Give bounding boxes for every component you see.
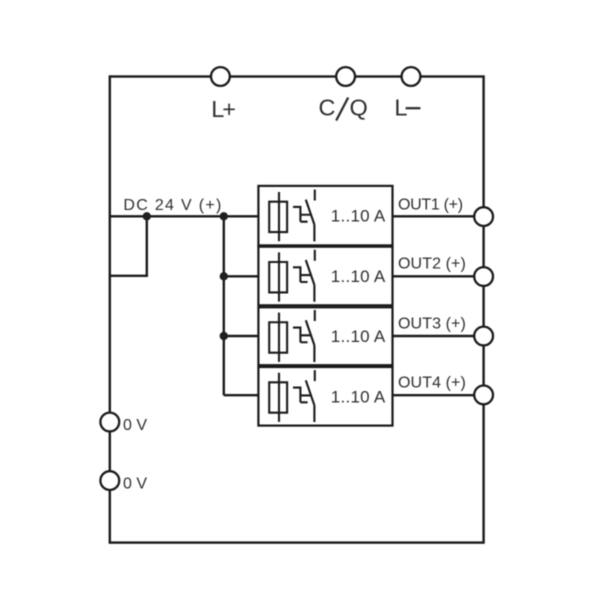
svg-text:+: + — [222, 96, 236, 122]
svg-text:1..10 A: 1..10 A — [331, 207, 386, 226]
svg-text:OUT4 (+): OUT4 (+) — [398, 375, 466, 392]
svg-text:1..10 A: 1..10 A — [331, 327, 386, 346]
svg-text:C: C — [319, 95, 336, 121]
svg-text:0 V: 0 V — [123, 417, 147, 434]
svg-text:Q: Q — [350, 95, 368, 121]
svg-text:DC 24 V (+): DC 24 V (+) — [123, 197, 222, 214]
svg-text:OUT2 (+): OUT2 (+) — [398, 256, 466, 273]
svg-text:OUT1 (+): OUT1 (+) — [398, 197, 463, 214]
svg-text:0 V: 0 V — [123, 475, 147, 492]
svg-text:1..10 A: 1..10 A — [331, 267, 386, 286]
svg-text:OUT3 (+): OUT3 (+) — [398, 315, 466, 332]
svg-text:1..10 A: 1..10 A — [331, 387, 386, 406]
svg-text:L: L — [394, 95, 407, 121]
